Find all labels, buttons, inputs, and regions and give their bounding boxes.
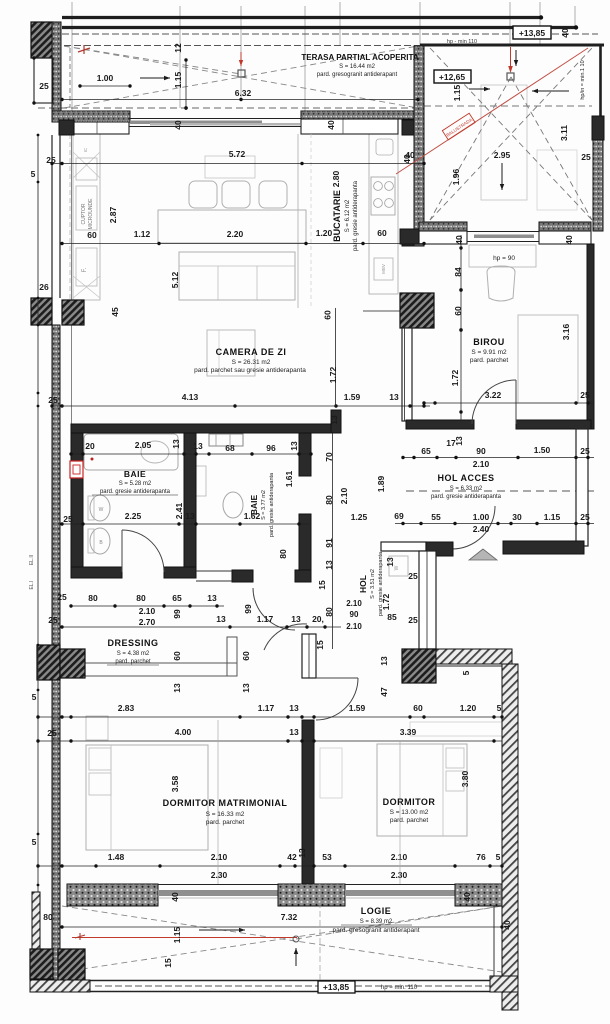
wall - block under living top wall	[59, 120, 74, 135]
svg-text:2.30: 2.30	[391, 870, 408, 880]
svg-text:65: 65	[172, 593, 182, 603]
furniture - dressing closet bar	[83, 663, 237, 676]
svg-text:IC: IC	[83, 147, 88, 152]
svg-text:80: 80	[324, 495, 334, 505]
wall - baie top wall	[71, 424, 341, 433]
red shower box on baie wall	[70, 461, 83, 478]
kitchen nook bottom counter line	[363, 310, 412, 312]
svg-text:5: 5	[461, 670, 471, 675]
svg-text:5: 5	[32, 837, 37, 847]
svg-text:2.10: 2.10	[211, 852, 228, 862]
svg-text:pard. gresie antiderapanta: pard. gresie antiderapanta	[353, 180, 359, 251]
svg-text:BUCATARIE: BUCATARIE	[332, 190, 342, 242]
svg-text:3.80: 3.80	[460, 770, 470, 787]
wall - big hatched block left of dressing	[37, 645, 60, 680]
wall - baie2 south wall with door gap	[232, 570, 253, 582]
svg-text:1.17: 1.17	[257, 614, 274, 624]
furniture - sofa	[179, 252, 295, 300]
terrace node and arrows	[238, 70, 245, 77]
furniture - dining table	[158, 210, 306, 243]
svg-text:pard. parchet: pard. parchet	[206, 819, 244, 826]
svg-text:99: 99	[243, 604, 253, 614]
svg-text:3.39: 3.39	[400, 727, 417, 737]
wall - left exterior wall speckle lower section	[52, 680, 60, 980]
svg-text:+13,85: +13,85	[519, 28, 546, 38]
svg-text:2.87: 2.87	[108, 206, 118, 223]
svg-text:53: 53	[322, 852, 332, 862]
dim chain 4.00 3.39	[38, 740, 502, 742]
svg-text:25: 25	[581, 152, 591, 162]
dim hol vertical chain	[332, 433, 334, 649]
svg-text:1.25: 1.25	[351, 512, 368, 522]
wall - logie bottom band left hatch	[30, 980, 90, 992]
svg-text:13: 13	[297, 848, 307, 858]
svg-text:13: 13	[454, 436, 464, 446]
svg-text:S = 16.44 m2: S = 16.44 m2	[339, 64, 376, 70]
svg-text:25: 25	[408, 571, 418, 581]
wall - baie1 south wall segments with door gap	[71, 567, 122, 578]
svg-text:5: 5	[497, 703, 502, 713]
svg-text:15: 15	[317, 580, 327, 590]
svg-text:2.10: 2.10	[346, 599, 362, 608]
svg-text:MBV: MBV	[381, 264, 386, 274]
svg-text:2.10: 2.10	[346, 622, 362, 631]
svg-text:90: 90	[476, 446, 486, 456]
svg-text:1.59: 1.59	[349, 703, 366, 713]
svg-text:1.96: 1.96	[451, 168, 461, 185]
wall - hol acces south wall right segment	[503, 541, 584, 554]
svg-text:60: 60	[241, 651, 251, 661]
svg-text:13: 13	[193, 441, 203, 451]
terrace left face dashed	[69, 48, 71, 108]
svg-text:60: 60	[87, 230, 97, 240]
wall - terrace right east wall	[599, 45, 602, 116]
svg-text:1.00: 1.00	[97, 73, 114, 83]
svg-text:S = 16.33 m2: S = 16.33 m2	[206, 811, 245, 818]
svg-text:pard. parchet: pard. parchet	[470, 357, 508, 364]
wall - hatched band to right outer wall	[436, 649, 512, 664]
svg-text:5: 5	[496, 852, 501, 862]
wall - terrace right top wall line	[420, 44, 604, 47]
svg-text:40: 40	[405, 150, 415, 160]
svg-text:25: 25	[47, 728, 57, 738]
svg-text:13: 13	[289, 727, 299, 737]
furniture - baie1 bathtub	[84, 434, 178, 470]
svg-text:S = 5.28 m2: S = 5.28 m2	[119, 481, 152, 487]
furniture - kitchen counter column with sink stove fridge	[369, 134, 398, 294]
furniture - dormitor wardrobe band	[410, 722, 502, 736]
red balustrada label	[442, 113, 475, 140]
svg-text:1.72: 1.72	[328, 366, 338, 383]
svg-text:S = 9.91 m2: S = 9.91 m2	[471, 349, 507, 356]
svg-text:13: 13	[172, 683, 182, 693]
svg-text:2.25: 2.25	[125, 511, 142, 521]
svg-text:40: 40	[454, 235, 464, 245]
furniture - dining chairs top row	[189, 181, 217, 208]
svg-text:85: 85	[387, 612, 397, 622]
svg-text:HOL ACCES: HOL ACCES	[437, 473, 494, 483]
wall - dorm matrimonial south wall right segment	[278, 884, 345, 906]
svg-text:pard. gresogranit antiderapant: pard. gresogranit antiderapant	[317, 72, 398, 78]
dim chain logie 7.32	[62, 926, 502, 928]
svg-text:13: 13	[216, 614, 226, 624]
svg-text:pard. parchet sau gresie antid: pard. parchet sau gresie antiderapanta	[194, 367, 306, 374]
red diagonal line terrace	[396, 48, 588, 174]
svg-text:1.20: 1.20	[316, 228, 333, 238]
furniture - kitchen peninsula line	[297, 134, 299, 308]
dim chain 2.83 1.17 13 1.59 60 1.20 5	[38, 716, 502, 718]
wall - logie bottom left blocks	[30, 949, 53, 979]
svg-text:80: 80	[278, 549, 288, 559]
svg-text:1.50: 1.50	[534, 445, 551, 455]
svg-text:F.: F.	[82, 267, 88, 272]
dim chain bedrooms south	[38, 865, 502, 867]
svg-text:2.70: 2.70	[139, 617, 156, 627]
wall - left exterior wall speckle mid section	[52, 325, 60, 645]
dim chain baie top	[71, 453, 311, 455]
red vertical line at terrace right node	[510, 47, 512, 68]
terrace roof edge band top	[62, 16, 541, 19]
svg-text:2.30: 2.30	[211, 870, 228, 880]
svg-text:80: 80	[324, 607, 334, 617]
wall - birou south wall left segment	[406, 420, 474, 429]
svg-text:3.58: 3.58	[170, 775, 180, 792]
svg-text:5: 5	[31, 169, 36, 179]
window - living west window (thin wall lines)	[51, 135, 53, 298]
dim chain 4.13 1.59 13	[52, 405, 430, 407]
wall - terrace right bottom wall speckle segments	[419, 222, 467, 231]
wall - baie1 west wall	[71, 433, 83, 573]
svg-text:40: 40	[170, 892, 180, 902]
svg-text:1.61: 1.61	[284, 470, 294, 487]
svg-text:6.32: 6.32	[235, 88, 252, 98]
svg-text:1.20: 1.20	[460, 703, 477, 713]
svg-text:4.00: 4.00	[175, 727, 192, 737]
svg-text:15: 15	[163, 958, 173, 968]
svg-text:25: 25	[63, 514, 73, 524]
svg-text:84: 84	[453, 267, 463, 277]
svg-text:S = 6.33 m2: S = 6.33 m2	[450, 486, 483, 492]
svg-text:2.10: 2.10	[391, 852, 408, 862]
svg-text:W: W	[99, 507, 104, 513]
svg-text:BAIE: BAIE	[249, 495, 259, 516]
svg-text:13: 13	[385, 557, 395, 567]
terrace right node	[507, 73, 514, 80]
svg-text:60: 60	[323, 310, 333, 320]
svg-text:pard. gresogranit antiderapant: pard. gresogranit antiderapant	[332, 927, 419, 934]
wall - top-left corner block	[31, 22, 53, 58]
svg-text:pard. gresie antiderapanta: pard. gresie antiderapanta	[431, 494, 502, 500]
svg-text:LOGIE: LOGIE	[361, 906, 392, 916]
svg-text:4.13: 4.13	[182, 392, 199, 402]
svg-text:69: 69	[394, 511, 404, 521]
svg-text:1.15: 1.15	[172, 926, 182, 943]
furniture - terrace right room planters	[481, 85, 527, 200]
svg-text:13: 13	[289, 441, 299, 451]
svg-text:S = 13.00 m2: S = 13.00 m2	[390, 809, 429, 816]
svg-text:80: 80	[43, 912, 53, 922]
wall - kitchen top wall speckle	[301, 111, 418, 119]
red mark logie left	[75, 933, 85, 940]
svg-text:30: 30	[512, 512, 522, 522]
svg-text:DORMITOR MATRIMONIAL: DORMITOR MATRIMONIAL	[163, 798, 288, 808]
wall - kitchen terrace division wall speckle	[414, 46, 424, 246]
wall - entry west wall vertical	[419, 551, 436, 649]
svg-text:60: 60	[172, 651, 182, 661]
svg-text:hp = min. 110: hp = min. 110	[381, 985, 418, 991]
svg-text:+13,85: +13,85	[323, 982, 350, 992]
svg-text:BAIE: BAIE	[124, 469, 146, 479]
svg-text:13: 13	[289, 703, 299, 713]
svg-text:7.32: 7.32	[281, 912, 298, 922]
svg-text:12: 12	[173, 43, 183, 53]
entry door triangle marker	[469, 549, 497, 560]
dim chain terrace 6.32	[62, 99, 418, 101]
svg-text:2.20: 2.20	[227, 229, 244, 239]
living west wall inner face lines	[71, 134, 73, 424]
svg-text:13: 13	[207, 593, 217, 603]
svg-text:EL.II: EL.II	[29, 555, 35, 565]
dim 1.15 and 12 rotated top	[185, 60, 187, 110]
wall - logie left narrow hatched strip	[32, 892, 40, 949]
wall - left exterior pier top speckle	[52, 22, 61, 111]
dim chain baie mid 2.25	[62, 523, 311, 525]
wall - hol acces east wall	[576, 429, 588, 546]
wall - stub living-hol	[331, 410, 341, 433]
svg-text:13: 13	[185, 511, 195, 521]
wall - right exterior wall bottom hatched	[502, 664, 518, 1010]
svg-text:pard. gresie antiderapanta: pard. gresie antiderapanta	[100, 489, 171, 495]
furniture - dormitor bed with pillows	[377, 744, 467, 836]
svg-text:3.16: 3.16	[561, 323, 571, 340]
svg-text:25: 25	[580, 446, 590, 456]
svg-text:pard. gresie antiderapanta: pard. gresie antiderapanta	[269, 472, 275, 537]
svg-text:99: 99	[172, 609, 182, 619]
furniture - cabinets under living top wall	[74, 120, 129, 134]
svg-text:S = 26.31 m2: S = 26.31 m2	[232, 359, 271, 366]
svg-text:65: 65	[421, 446, 431, 456]
dim chain y627	[62, 626, 341, 628]
svg-text:1.12: 1.12	[134, 229, 151, 239]
dim vertical living right 60 1.72 13	[335, 308, 337, 406]
svg-text:55: 55	[431, 512, 441, 522]
svg-text:60: 60	[377, 228, 387, 238]
svg-text:13: 13	[171, 439, 181, 449]
red line across logie	[72, 937, 297, 939]
svg-text:70: 70	[324, 452, 334, 462]
furniture layer - living room west tall cabinet column	[73, 134, 100, 300]
label - +13,85 bottom box	[318, 981, 355, 993]
svg-text:15: 15	[315, 640, 325, 650]
window axis construction lines bedrooms	[217, 720, 219, 884]
terrace dashed boundary bottom	[38, 107, 418, 109]
wall - left blocks mid (camera de zi south)	[31, 298, 52, 325]
svg-text:1.48: 1.48	[108, 852, 125, 862]
svg-text:25: 25	[39, 81, 49, 91]
wall - big hatched block kitchen-birou corner	[400, 293, 434, 328]
label - +13,85 top right box	[513, 26, 551, 39]
wall - block left end of terrace bottom wall	[400, 229, 419, 244]
wall - block kitchen NE	[402, 120, 414, 135]
svg-text:S = 3.51 m2: S = 3.51 m2	[370, 569, 376, 599]
svg-text:S = 8.39 m2: S = 8.39 m2	[360, 919, 393, 925]
svg-text:+12,65: +12,65	[439, 72, 466, 82]
svg-text:60: 60	[453, 306, 463, 316]
wall - hol top wall segment outline part	[381, 542, 426, 551]
dim chain 2.20 1.20	[62, 243, 424, 245]
svg-text:CAMERA DE ZI: CAMERA DE ZI	[216, 347, 287, 357]
svg-text:13: 13	[379, 656, 389, 666]
svg-text:80: 80	[136, 593, 146, 603]
svg-text:47: 47	[379, 687, 389, 697]
wall - hol-dressing stub	[302, 634, 316, 678]
dim chain terrace 1.00 with arrow	[80, 85, 130, 87]
svg-text:96: 96	[266, 443, 276, 453]
svg-text:5: 5	[32, 692, 37, 702]
wall - logie bottom band right hatch	[490, 976, 518, 992]
svg-text:2.10: 2.10	[339, 487, 349, 504]
svg-text:1.89: 1.89	[376, 475, 386, 492]
logie arrow and node	[199, 929, 245, 931]
label - +12,65 box	[434, 70, 471, 83]
svg-text:13: 13	[329, 415, 339, 425]
svg-text:EL.I: EL.I	[29, 581, 35, 590]
svg-text:13: 13	[241, 683, 251, 693]
svg-text:25: 25	[580, 512, 590, 522]
terrace right dashed boundary	[424, 105, 592, 107]
svg-text:BIROU: BIROU	[473, 337, 505, 347]
furniture - baie1 bidet B	[90, 528, 110, 554]
red mark top left	[78, 45, 90, 54]
svg-text:13: 13	[324, 560, 334, 570]
svg-text:pard. parchet: pard. parchet	[115, 659, 151, 665]
svg-text:1.17: 1.17	[258, 703, 275, 713]
wall - dorm matrimonial south wall left segment	[67, 884, 158, 906]
dim chain hol acces top	[403, 457, 594, 459]
dim chain 5.72	[52, 163, 424, 165]
window - between terrace and birou	[467, 231, 539, 233]
svg-text:2.83: 2.83	[118, 703, 135, 713]
hol acces dashed line	[406, 490, 594, 492]
svg-text:S = 3.77 m2: S = 3.77 m2	[261, 490, 267, 520]
svg-text:90: 90	[350, 610, 359, 619]
svg-text:42: 42	[287, 852, 297, 862]
wall - entry big hatched block	[402, 649, 436, 683]
wall - band below terrace-right bottom wall	[419, 231, 467, 244]
svg-text:3.22: 3.22	[485, 390, 502, 400]
furniture - hol washing machine	[389, 556, 408, 576]
svg-text:25: 25	[408, 615, 418, 625]
svg-text:40: 40	[502, 920, 512, 930]
furniture - birou wardrobe	[518, 315, 578, 403]
svg-text:TERASA PARTIAL ACOPERITA: TERASA PARTIAL ACOPERITA	[301, 53, 418, 62]
svg-text:20,: 20,	[312, 614, 324, 624]
svg-text:1.15: 1.15	[173, 71, 183, 88]
wall - hol top wall solid corner	[426, 542, 453, 556]
svg-text:S = 6.12 m2: S = 6.12 m2	[345, 199, 351, 232]
svg-text:2.95: 2.95	[494, 150, 511, 160]
furniture - dormitor matrimonial bed with pillows	[86, 745, 208, 850]
svg-text:40: 40	[560, 28, 570, 38]
dim chain dressing 80 80 65 13	[71, 605, 224, 607]
svg-text:1.15: 1.15	[544, 512, 561, 522]
svg-text:20: 20	[85, 441, 95, 451]
svg-text:13: 13	[389, 392, 399, 402]
wall - block kitchen SE	[402, 231, 414, 246]
svg-text:80: 80	[88, 593, 98, 603]
svg-text:76: 76	[476, 852, 486, 862]
wall - stub between kitchen and birou	[402, 328, 412, 421]
svg-text:25: 25	[48, 615, 58, 625]
wall - living top wall left segment	[52, 111, 130, 122]
construction guide verticals top	[71, 2, 73, 111]
svg-text:2.40: 2.40	[473, 524, 490, 534]
window - dormitor south window	[345, 884, 455, 886]
wall - dormitor south wall right segment	[455, 884, 502, 906]
svg-text:2.41: 2.41	[174, 502, 184, 519]
svg-text:2.10: 2.10	[139, 606, 156, 616]
furniture - kitchen top counter band	[301, 119, 398, 134]
svg-text:pard. gresie antiderapanta: pard. gresie antiderapanta	[378, 551, 384, 616]
svg-text:40: 40	[173, 120, 183, 130]
left facade outer ledge line	[37, 135, 39, 958]
svg-text:91: 91	[324, 538, 334, 548]
svg-text:DORMITOR: DORMITOR	[383, 797, 436, 807]
svg-text:1.72: 1.72	[450, 369, 460, 386]
terrace left area dashed X diagonals	[64, 46, 418, 108]
logie dashed X diagonals	[62, 906, 502, 972]
door arc - dormitor door	[316, 678, 358, 720]
svg-text:25: 25	[46, 155, 56, 165]
svg-text:2.10: 2.10	[473, 459, 490, 469]
wall - between bedrooms	[302, 720, 314, 884]
svg-text:3.11: 3.11	[559, 125, 569, 141]
wall - baie2 east wall upper	[299, 433, 311, 476]
svg-text:26: 26	[39, 282, 49, 292]
wall - baie2 east wall lower	[299, 514, 311, 582]
svg-text:60: 60	[413, 703, 423, 713]
window - living top window glazing	[129, 118, 301, 120]
door arc - baie2 door	[253, 588, 295, 630]
svg-text:1.15: 1.15	[452, 84, 462, 101]
furniture - birou desk and chair	[469, 245, 536, 267]
logie bottom edge band	[30, 980, 518, 982]
furniture - living window seat rug	[205, 156, 255, 178]
wall - baie divider wall	[184, 433, 196, 578]
svg-text:hp = 90: hp = 90	[493, 255, 515, 262]
door arc - birou door	[472, 380, 516, 424]
svg-text:2.80: 2.80	[331, 170, 341, 187]
svg-text:5.72: 5.72	[229, 149, 246, 159]
door arc - entry door	[452, 506, 495, 549]
svg-text:25: 25	[48, 395, 58, 405]
furniture - baie1 toilet W	[90, 495, 110, 521]
svg-text:25: 25	[57, 592, 67, 602]
svg-text:hp/in = min.1 10: hp/in = min.1 10	[580, 60, 586, 99]
furniture - living coffee table	[207, 330, 255, 376]
hp min 110 dashed band top right	[64, 45, 540, 47]
dim chain hol acces bottom	[395, 523, 594, 525]
svg-text:1.59: 1.59	[344, 392, 361, 402]
svg-text:13: 13	[291, 614, 301, 624]
svg-text:68: 68	[225, 443, 235, 453]
terrace right room dashed X diagonals	[430, 48, 592, 220]
svg-text:CUPTOR: CUPTOR	[81, 203, 87, 224]
svg-text:HOL: HOL	[358, 575, 368, 593]
door arc - baie1 door	[122, 530, 164, 572]
svg-text:5.12: 5.12	[170, 271, 180, 288]
door arc - dressing door	[264, 624, 307, 650]
